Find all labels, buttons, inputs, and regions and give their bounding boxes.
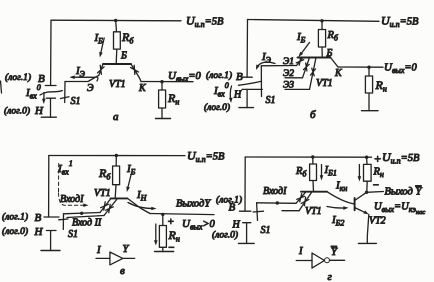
ground under Rн (в) — [155, 251, 174, 253]
logic symbol buffer (в) — [96, 257, 110, 259]
current arrow down beside Rн (в) — [155, 224, 157, 243]
svg-text:S1: S1 — [261, 225, 271, 236]
current arrow Iб (б) — [301, 43, 310, 55]
emitter lead Э1 (б) — [297, 58, 304, 66]
svg-text:Uи.п=5В: Uи.п=5В — [186, 14, 224, 30]
input lead ВходII of VT1 (в) — [104, 198, 118, 215]
node: rail junction above Rб (в) — [115, 154, 118, 157]
svg-text:Uи.п=5В: Uи.п=5В — [382, 150, 420, 166]
node: rail junction above Rб (б) — [320, 19, 323, 22]
current arrow Iб2 (г) — [327, 207, 346, 209]
collector lead of VT1 to VT2 base (г) — [327, 192, 354, 204]
wire: ВходI horizontal (в) — [64, 213, 101, 214]
wire: circuit a positive rail — [51, 19, 181, 22]
transistor VT1 base bar (б) — [298, 57, 331, 59]
svg-text:(лог.0): (лог.0) — [4, 106, 30, 117]
svg-text:VT1: VT1 — [316, 78, 333, 89]
resistor Rб (в) — [115, 156, 117, 167]
node: output junction (в) — [161, 213, 164, 216]
transistor VT1 base bar (a) — [103, 63, 131, 65]
emitter lead 2 of VT1 (г) — [299, 192, 312, 211]
wire: collector to output node (a) — [141, 81, 193, 83]
svg-text:а: а — [113, 111, 119, 123]
svg-text:(лог.0): (лог.0) — [204, 102, 230, 113]
resistor Rн (г) — [366, 157, 368, 164]
node: output junction (г) — [365, 191, 368, 194]
wire: input ВходI horizontal (г) — [257, 202, 296, 205]
svg-text:(лог.0): (лог.0) — [2, 226, 28, 237]
wire: Н contact to ground (б) — [246, 89, 248, 107]
current arrow Iкн (г) — [358, 165, 360, 179]
svg-text:Выход Y: Выход Y — [385, 187, 423, 198]
resistor Rн load (б) — [368, 67, 370, 76]
emitter lead of VT2 (г) — [355, 208, 367, 214]
current arrow Iб (в) — [128, 175, 132, 189]
wire: Э2 stub (б) — [285, 77, 303, 79]
emitter Э2 arrow (б) — [303, 63, 309, 71]
switch lower contact Н (б) — [242, 88, 262, 90]
switch arm (б) — [239, 81, 262, 85]
svg-text:S1: S1 — [71, 96, 81, 107]
switch S1 pole contact tick (г) — [253, 210, 263, 213]
node: rail junction above Rб (a) — [114, 19, 117, 22]
switch lower contact Н (в) — [46, 231, 56, 251]
collector lead of VT2 (г) — [355, 192, 367, 200]
svg-text:Uи.п=5В: Uи.п=5В — [187, 149, 225, 165]
resistor Rб (б) — [321, 21, 323, 30]
switch arm (a) — [40, 91, 62, 96]
svg-text:I: I — [298, 246, 303, 257]
wire: Э1 to switch (б) — [261, 65, 296, 67]
dashed current arrow Iвх1 (в) — [59, 164, 86, 206]
svg-text:Э3: Э3 — [283, 81, 294, 91]
wire: Э3 stub (б) — [285, 88, 310, 90]
svg-text:г: г — [328, 271, 333, 282]
svg-text:Б: Б — [120, 51, 127, 62]
emitter lead 1 of VT1 (г) — [296, 192, 306, 204]
collector lead of VT1 (в) — [128, 198, 151, 213]
node: rail junction above Rн (г) — [365, 156, 368, 159]
input lead ВходI of VT1 (в) — [100, 198, 111, 212]
collector junction arrow (a) — [131, 65, 139, 74]
wire: emitter2 stub (г) — [282, 210, 299, 212]
svg-text:в: в — [120, 265, 125, 277]
current arrow Iэ (б) — [257, 62, 275, 67]
switch S1 pole wire (в) — [62, 214, 64, 230]
transistor VT1 base bar (г) — [301, 191, 327, 193]
svg-text:В: В — [229, 202, 236, 214]
wire: Э1 drop to switch pole (б) — [260, 66, 262, 97]
node: rail junction above Rб (г) — [311, 155, 314, 158]
current arrow Iвх0 (a) — [43, 93, 45, 102]
resistor Rн load (в) — [162, 214, 164, 225]
svg-text:Uи.п=5В: Uи.п=5В — [381, 14, 419, 30]
node: junction on ВходI wire (в) — [80, 212, 83, 215]
wire: left drop from rail to switch contact В (a) — [50, 20, 52, 85]
svg-text:Э2: Э2 — [283, 69, 294, 79]
resistor Rб (a) — [115, 21, 118, 32]
ground at input (б) — [239, 107, 253, 109]
input ВходI arrow (в) — [101, 202, 109, 210]
ground at input (г) — [239, 242, 255, 244]
node: output junction (a) — [160, 80, 163, 83]
svg-text:Э1: Э1 — [283, 57, 294, 67]
switch S1 pole wire (г) — [256, 203, 259, 221]
switch S1 pole wire (a) — [64, 82, 66, 103]
svg-text:(лог.1): (лог.1) — [206, 70, 232, 81]
emitter Э1 arrow (б) — [296, 57, 303, 65]
svg-text:VT2: VT2 — [369, 216, 386, 227]
svg-text:Н: Н — [233, 90, 242, 101]
svg-text:Н: Н — [232, 220, 241, 231]
wire: VT2 emitter to ground (г) — [367, 214, 369, 243]
svg-text:−: − — [372, 180, 379, 192]
ground at input (в) — [41, 250, 60, 252]
emitter 2 arrow (г) — [301, 197, 309, 205]
emitter lead Э2 (б) — [303, 58, 310, 78]
wire: left drop from rail to contact В (г) — [244, 157, 246, 211]
node: output junction (б) — [367, 66, 370, 69]
resistor Rб (г) — [312, 157, 314, 164]
emitter lead Э3 (б) — [310, 58, 317, 90]
wire: circuit г positive rail — [245, 156, 371, 158]
node: junction on input wire (г) — [276, 201, 279, 204]
svg-text:S1: S1 — [266, 95, 276, 106]
switch upper contact В (б) — [242, 76, 252, 78]
svg-text:ВыходY: ВыходY — [176, 199, 211, 210]
svg-text:S1: S1 — [68, 229, 78, 240]
collector lead of VT1 (б) — [331, 58, 339, 68]
logic symbol inverter (г) — [296, 260, 312, 262]
svg-text:В: В — [236, 71, 243, 83]
wire: emitter to switch pole (a) — [65, 75, 99, 81]
wire: collector to output node (б) — [338, 66, 383, 68]
transistor VT1 base bar (в) — [111, 197, 128, 199]
emitter junction arrow (a) — [98, 65, 105, 74]
svg-text:+: + — [374, 152, 382, 166]
svg-text:б: б — [310, 109, 316, 121]
svg-text:VT1: VT1 — [109, 79, 126, 90]
switch S1 upper contact В (a) — [45, 85, 56, 87]
emitter 1 arrow (г) — [297, 194, 305, 202]
svg-text:(лог.0): (лог.0) — [212, 230, 238, 241]
current arrow Iб1 (г) — [321, 165, 323, 178]
svg-text:ВходI: ВходI — [263, 186, 287, 197]
transistor VT2 base bar (г) — [354, 198, 356, 210]
svg-text:ВходI: ВходI — [60, 194, 84, 205]
switch S1 pole contact tick (в) — [59, 218, 68, 221]
current arrow Iн (в) — [128, 203, 154, 209]
ground under Rн (б) — [362, 110, 379, 112]
collector lead of VT1 (a) — [131, 64, 141, 82]
svg-text:I: I — [96, 245, 101, 256]
svg-text:VT1: VT1 — [305, 206, 322, 217]
switch S1 pole contact tick (a) — [61, 97, 70, 99]
svg-text:Н: Н — [34, 226, 44, 238]
current arrow Iэ (a) — [72, 77, 98, 81]
switch lower contact Н (г) — [243, 223, 251, 244]
switch upper contact В (в) — [44, 216, 59, 218]
svg-text:+: + — [167, 216, 174, 228]
emitter lead of VT1 (a) — [99, 64, 103, 75]
switch upper contact В (г) — [240, 210, 251, 212]
svg-text:В: В — [35, 212, 42, 224]
stray mark left edge — [1, 81, 2, 93]
current arrow Iб (a) — [100, 38, 104, 55]
switch lower contact Н (a) — [46, 98, 55, 117]
input ВходII arrow (в) — [106, 204, 114, 212]
wire: circuit б positive rail — [248, 20, 380, 22]
wire: left drop from rail to contact В (б) — [246, 20, 248, 78]
wire: collector to output (в) — [150, 214, 214, 215]
svg-text:Э: Э — [87, 83, 94, 94]
ground at input (a) — [41, 116, 56, 118]
svg-text:Н: Н — [34, 105, 44, 117]
svg-text:Вход II: Вход II — [72, 218, 102, 229]
ground under VT2 (г) — [358, 242, 376, 244]
svg-text:(лог.1): (лог.1) — [2, 212, 28, 223]
wire: left drop from rail to contact В (в) — [48, 156, 50, 218]
wire: output to label (г) — [367, 191, 384, 194]
emitter Э3 arrow (б) — [311, 68, 316, 76]
svg-text:(лог.1): (лог.1) — [5, 72, 31, 83]
resistor Rн load (a) — [161, 82, 163, 90]
current arrow Iвх0 (б) — [230, 86, 231, 101]
ground under Rн (a) — [156, 118, 171, 120]
wire: ВходII stub (в) — [67, 216, 104, 218]
svg-text:VT1: VT1 — [94, 188, 111, 199]
wire: circuit в positive rail — [49, 155, 185, 157]
